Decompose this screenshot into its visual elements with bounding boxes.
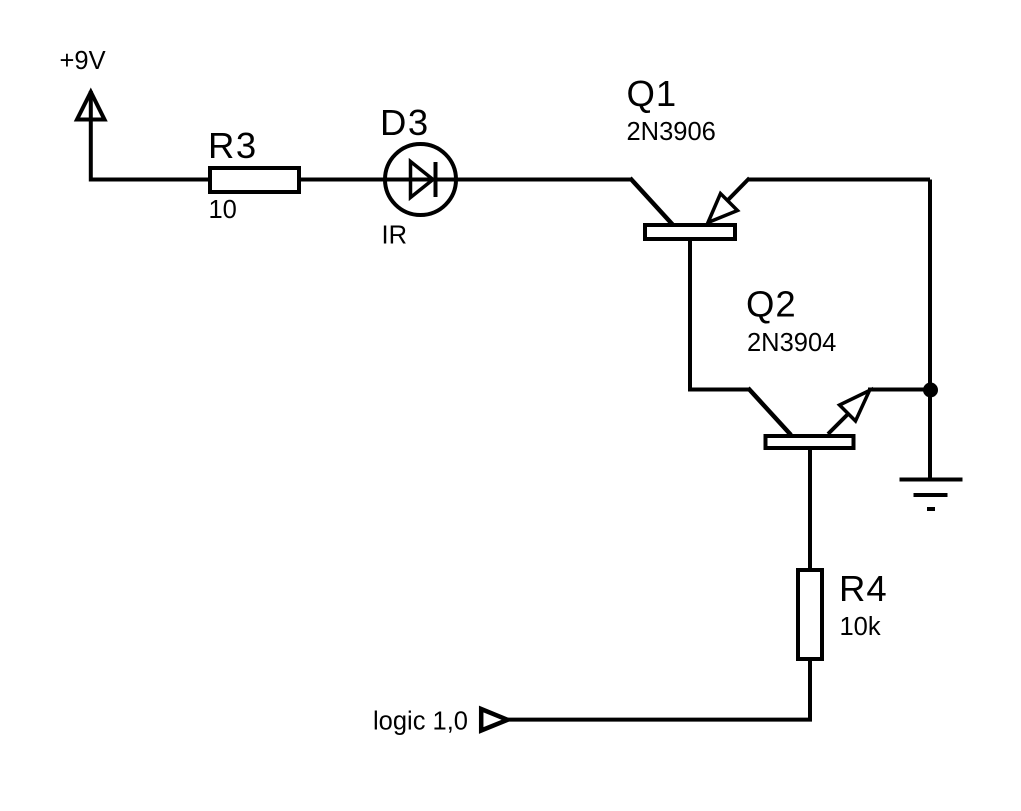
- transistor Q2 base bar: [766, 436, 854, 448]
- transistor Q1 base bar: [645, 225, 735, 239]
- svg-text:10k: 10k: [840, 613, 881, 641]
- svg-text:2N3906: 2N3906: [627, 118, 716, 146]
- svg-text:+9V: +9V: [60, 47, 106, 75]
- wire: R4 to bottom rail and left to input: [508, 659, 810, 720]
- resistor R4: [798, 570, 822, 659]
- svg-text:R3: R3: [208, 125, 258, 166]
- wire: +9V arrow to R3: [91, 91, 210, 180]
- resistor R3: [210, 168, 299, 192]
- svg-text:R4: R4: [839, 568, 888, 609]
- wire: through diode to Q1 collector bend: [385, 178, 632, 182]
- wire: Q2 base to R4: [808, 449, 812, 570]
- svg-text:D3: D3: [380, 102, 430, 143]
- power symbol +9V arrow: [77, 92, 105, 120]
- diode D3 triangle: [411, 162, 434, 198]
- wire: Q1 emitter to right rail: [748, 178, 930, 182]
- junction dot: [923, 383, 938, 398]
- transistor Q1 emitter arrowhead: [708, 194, 738, 223]
- svg-text:2N3904: 2N3904: [747, 329, 836, 357]
- ground symbol: [900, 480, 963, 510]
- svg-text:IR: IR: [382, 222, 408, 250]
- svg-text:Q1: Q1: [627, 73, 678, 114]
- svg-text:10: 10: [209, 196, 237, 224]
- svg-text:Q2: Q2: [746, 284, 797, 325]
- wire: Q2 emitter to junction dot: [868, 388, 930, 392]
- svg-text:logic 1,0: logic 1,0: [373, 708, 468, 736]
- transistor Q1 emitter wire: [727, 178, 750, 201]
- transistor Q2 emitter wire: [828, 413, 849, 434]
- input port triangle: [481, 709, 507, 731]
- wire: Q1 base down and right to Q2 collector: [690, 240, 750, 390]
- diode D3 cathode bar: [434, 162, 438, 197]
- transistor Q2 collector diagonal: [748, 388, 791, 435]
- diode D3 circle: [385, 144, 456, 215]
- wire: R3 to diode D3: [301, 178, 385, 182]
- wire: right rail vertical to ground: [928, 180, 932, 480]
- transistor Q1 collector diagonal: [630, 178, 673, 225]
- transistor Q2 emitter arrowhead: [840, 391, 870, 422]
